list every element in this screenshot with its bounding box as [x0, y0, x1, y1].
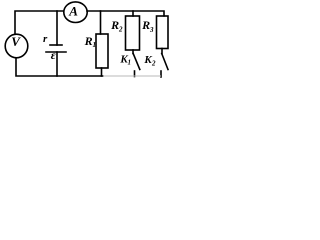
- svg-text:2: 2: [118, 26, 123, 34]
- svg-text:A: A: [68, 4, 78, 19]
- svg-text:ε: ε: [51, 48, 56, 62]
- svg-text:R: R: [84, 34, 93, 48]
- svg-text:r: r: [43, 33, 48, 45]
- svg-text:R: R: [141, 18, 150, 32]
- svg-text:3: 3: [149, 26, 154, 34]
- svg-text:V: V: [11, 34, 21, 49]
- svg-text:2: 2: [151, 60, 156, 68]
- svg-text:1: 1: [93, 41, 97, 49]
- svg-text:1: 1: [128, 59, 132, 67]
- svg-text:R: R: [110, 18, 119, 32]
